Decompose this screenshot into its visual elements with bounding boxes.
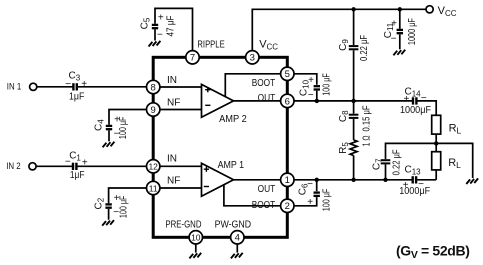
wire C7 top corner bbox=[386, 143, 437, 159]
svg-text:RIPPLE: RIPPLE bbox=[197, 40, 225, 51]
capacitor C10 100uF bbox=[314, 85, 320, 87]
node R5 bottom bbox=[351, 178, 355, 182]
svg-text:47 μF: 47 μF bbox=[166, 16, 177, 37]
VCC terminal bbox=[426, 6, 433, 13]
svg-text:+: + bbox=[158, 13, 164, 24]
node out2 / C8-C9 bbox=[351, 99, 355, 103]
wire C1 to pin 12 bbox=[78, 165, 147, 167]
amp 2 minus input mark bbox=[205, 104, 210, 106]
node C6 top bbox=[315, 178, 319, 182]
svg-text:−: − bbox=[421, 93, 427, 104]
pin 7 bbox=[186, 51, 199, 64]
wire C13 to RL2 lead bbox=[417, 179, 436, 181]
svg-text:AMP 1: AMP 1 bbox=[218, 160, 245, 171]
svg-text:+: + bbox=[308, 75, 314, 86]
svg-text:+: + bbox=[403, 94, 409, 105]
svg-text:5: 5 bbox=[285, 69, 290, 80]
capacitor C6 100uF bbox=[314, 191, 320, 193]
wire amp2 boot L to pin 5 bbox=[225, 74, 280, 97]
wire pin12 to amp1 + bbox=[160, 165, 202, 167]
wire pin3 to VCC rail bbox=[252, 9, 426, 50]
svg-text:−: − bbox=[65, 79, 71, 90]
svg-text:9: 9 bbox=[151, 105, 156, 116]
wire junction to right ground bbox=[436, 143, 473, 178]
wire C14 to RL1 bbox=[418, 101, 437, 115]
wire rail to C9 bbox=[353, 9, 355, 45]
svg-text:−: − bbox=[157, 30, 163, 41]
svg-text:−: − bbox=[391, 34, 397, 45]
ground under pin 10 bbox=[195, 244, 197, 253]
svg-text:4: 4 bbox=[235, 233, 240, 244]
pin 6 bbox=[281, 94, 294, 107]
ground under pin 4 bbox=[236, 244, 238, 253]
pin 8 bbox=[147, 80, 160, 93]
svg-text:100 μF: 100 μF bbox=[321, 189, 332, 212]
resistor RL (lower) bbox=[432, 152, 441, 170]
svg-text:7: 7 bbox=[190, 53, 195, 64]
svg-text:1000μF: 1000μF bbox=[399, 186, 430, 197]
svg-text:−: − bbox=[65, 156, 71, 167]
svg-text:8: 8 bbox=[151, 82, 156, 93]
svg-text:6: 6 bbox=[285, 96, 290, 107]
ground under C5 bbox=[149, 41, 161, 47]
wire pin11 to amp1 - bbox=[160, 187, 202, 189]
svg-text:IN 1: IN 1 bbox=[7, 82, 21, 92]
svg-text:1μF: 1μF bbox=[69, 91, 84, 102]
amp 1 plus input mark bbox=[204, 167, 209, 172]
wire C11 to ground bbox=[399, 34, 401, 49]
svg-text:OUT: OUT bbox=[258, 93, 276, 104]
svg-text:IN: IN bbox=[167, 75, 177, 86]
resistor RL (upper) bbox=[432, 115, 441, 134]
svg-text:AMP 2: AMP 2 bbox=[219, 114, 247, 125]
svg-text:100 μF: 100 μF bbox=[322, 73, 333, 96]
pin 2 bbox=[281, 199, 294, 212]
svg-text:12: 12 bbox=[148, 162, 158, 172]
resistor R5 1 ohm bbox=[350, 140, 357, 156]
amp 1 triangle bbox=[202, 163, 234, 196]
wire rail to C11 bbox=[399, 9, 401, 29]
IC body outline bbox=[153, 57, 287, 237]
capacitor C14 1000uF bbox=[412, 97, 414, 104]
capacitor C3 1uF bbox=[72, 83, 74, 90]
svg-text:PRE-GND: PRE-GND bbox=[165, 219, 201, 230]
node C10 bottom bbox=[315, 99, 319, 103]
capacitor C11 1000uF bbox=[397, 29, 403, 31]
pin 12 bbox=[147, 160, 160, 173]
capacitor C7 0.22uF bbox=[381, 159, 391, 161]
wire pin5 to C10 bbox=[294, 74, 317, 85]
pin 10 bbox=[189, 231, 202, 244]
svg-text:100 μF: 100 μF bbox=[118, 117, 129, 139]
svg-text:−: − bbox=[307, 179, 313, 190]
svg-text:+: + bbox=[81, 79, 87, 90]
wire IN2 to C1 bbox=[36, 165, 74, 167]
svg-text:2: 2 bbox=[285, 201, 290, 212]
ground right bbox=[466, 178, 478, 184]
capacitor C2 100uF bbox=[105, 203, 111, 205]
wire C10 to out2 line bbox=[316, 91, 318, 101]
wire C3 to pin 8 bbox=[78, 86, 147, 88]
svg-text:NF: NF bbox=[167, 175, 180, 186]
amp 1 minus input mark bbox=[204, 186, 209, 188]
pin 1 bbox=[281, 173, 294, 186]
capacitor C13 1000uF bbox=[412, 176, 414, 183]
wire R5 to out1 line bbox=[353, 156, 355, 180]
svg-text:(GV = 52dB): (GV = 52dB) bbox=[396, 242, 470, 260]
svg-text:11: 11 bbox=[149, 183, 158, 193]
pin 5 bbox=[281, 67, 294, 80]
svg-text:1: 1 bbox=[285, 175, 290, 186]
pin 3 bbox=[246, 51, 259, 64]
wire amp1 output to pin 1 bbox=[234, 179, 281, 181]
svg-text:BOOT: BOOT bbox=[252, 78, 276, 89]
svg-text:IN 2: IN 2 bbox=[6, 161, 21, 171]
wire out1 line pin1 to C13 bbox=[294, 179, 412, 181]
wire pin9 to amp2 - bbox=[160, 109, 202, 111]
wire C8 to R5 bbox=[353, 119, 355, 140]
svg-text:1000μF: 1000μF bbox=[400, 105, 431, 116]
node between RL bbox=[434, 141, 438, 145]
wire pin9 to C4 bbox=[109, 110, 160, 125]
ground under C11 bbox=[393, 50, 405, 56]
wire out1 to C6 bbox=[316, 180, 318, 191]
wire C5 to pin 7 bbox=[155, 8, 193, 50]
node C9 top bbox=[351, 7, 355, 11]
svg-text:OUT: OUT bbox=[258, 184, 276, 195]
ground under C2 bbox=[102, 220, 114, 226]
svg-text:0.22 μF: 0.22 μF bbox=[392, 149, 403, 175]
pin 11 bbox=[147, 181, 160, 194]
wire C7 to out1 line bbox=[385, 164, 387, 179]
svg-text:+: + bbox=[391, 19, 397, 30]
capacitor C4 100uF bbox=[106, 125, 112, 127]
capacitor C5 47uF bbox=[154, 29, 156, 40]
svg-text:100 μF: 100 μF bbox=[118, 196, 129, 219]
svg-text:3: 3 bbox=[250, 53, 255, 64]
svg-text:0.22 μF: 0.22 μF bbox=[359, 35, 370, 61]
wire C2 to ground bbox=[108, 209, 110, 220]
pin 4 bbox=[231, 231, 244, 244]
wire amp1 boot L to pin 2 bbox=[224, 185, 281, 206]
capacitor C8 0.15uF bbox=[349, 114, 359, 116]
wire amp2 output to pin 6 bbox=[234, 100, 281, 102]
wire out2 node to C8 bbox=[353, 101, 355, 114]
wire C4 to ground bbox=[108, 130, 110, 141]
wire pin11 to C2 bbox=[109, 188, 160, 203]
ground under C4 bbox=[103, 142, 115, 148]
svg-text:1000 μF: 1000 μF bbox=[407, 18, 418, 45]
amp 2 plus input mark bbox=[205, 87, 210, 92]
svg-text:10: 10 bbox=[191, 233, 201, 243]
pin 9 bbox=[147, 103, 160, 116]
svg-text:1μF: 1μF bbox=[70, 170, 85, 181]
svg-text:0.15 μF: 0.15 μF bbox=[361, 106, 372, 132]
wire out2 line pin6 to C14 bbox=[294, 100, 412, 102]
wire IN1 to C3 bbox=[37, 86, 75, 88]
amp 2 triangle bbox=[202, 84, 234, 117]
svg-text:IN: IN bbox=[167, 154, 177, 165]
wire RL2 to out1 line bbox=[435, 170, 437, 180]
node C7 bottom bbox=[383, 178, 387, 182]
svg-text:NF: NF bbox=[167, 97, 180, 108]
wire RL1 to junction bbox=[435, 134, 437, 152]
wire pin8 to amp2 + bbox=[160, 86, 202, 88]
wire C9 to out2 line bbox=[353, 50, 355, 101]
capacitor C1 1uF bbox=[72, 163, 74, 170]
svg-text:BOOT: BOOT bbox=[252, 200, 276, 211]
node C11 top bbox=[398, 7, 402, 11]
capacitor C9 0.22uF bbox=[349, 45, 359, 47]
svg-text:1 Ω: 1 Ω bbox=[361, 135, 372, 146]
svg-text:PW-GND: PW-GND bbox=[215, 219, 252, 230]
wire C6 to pin 2 bbox=[294, 197, 317, 206]
svg-text:−: − bbox=[308, 90, 314, 101]
